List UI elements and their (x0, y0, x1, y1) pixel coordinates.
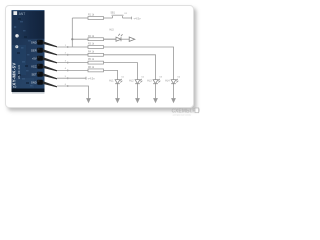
svg-text:K1: K1 (125, 13, 128, 15)
svg-text:HL4: HL4 (165, 80, 170, 82)
svg-text:R6 1k: R6 1k (88, 67, 95, 69)
svg-text:электронные схемы: электронные схемы (173, 114, 192, 116)
svg-text:3: 3 (65, 60, 67, 62)
svg-text:DER: DER (31, 48, 37, 52)
svg-text:D4: D4 (178, 77, 180, 79)
svg-text:5: 5 (65, 76, 67, 78)
svg-text:R4 1k: R4 1k (88, 51, 95, 53)
svg-text:WL RX 433: WL RX 433 (17, 64, 21, 79)
svg-text:ANT: ANT (19, 12, 25, 16)
svg-text:R3 1k: R3 1k (88, 44, 95, 46)
svg-text:R1 1k: R1 1k (88, 15, 95, 17)
svg-text:HL1: HL1 (109, 80, 114, 82)
svg-text:GND: GND (31, 80, 37, 84)
svg-text:2: 2 (65, 53, 67, 55)
svg-text:D2: D2 (142, 77, 144, 79)
svg-text:6: 6 (65, 84, 67, 86)
svg-text:SB1: SB1 (111, 13, 116, 15)
svg-text:R5 1k: R5 1k (88, 59, 95, 61)
svg-text:VCC: VCC (31, 64, 37, 68)
svg-text:D3: D3 (160, 77, 162, 79)
svg-text:1: 1 (65, 45, 67, 47)
svg-text:+4.5v: +4.5v (133, 16, 141, 20)
svg-text:HL3: HL3 (147, 80, 152, 82)
svg-text:R2 1k: R2 1k (88, 36, 95, 38)
svg-text:+4.5v: +4.5v (88, 77, 96, 81)
svg-text:GND: GND (31, 40, 37, 44)
svg-text:4: 4 (65, 68, 67, 70)
svg-text:HL5: HL5 (110, 30, 115, 32)
svg-text:HL2: HL2 (129, 80, 134, 82)
svg-text:SET: SET (32, 72, 37, 76)
svg-text:+5V: +5V (32, 56, 37, 60)
svg-text:D1: D1 (122, 77, 124, 79)
